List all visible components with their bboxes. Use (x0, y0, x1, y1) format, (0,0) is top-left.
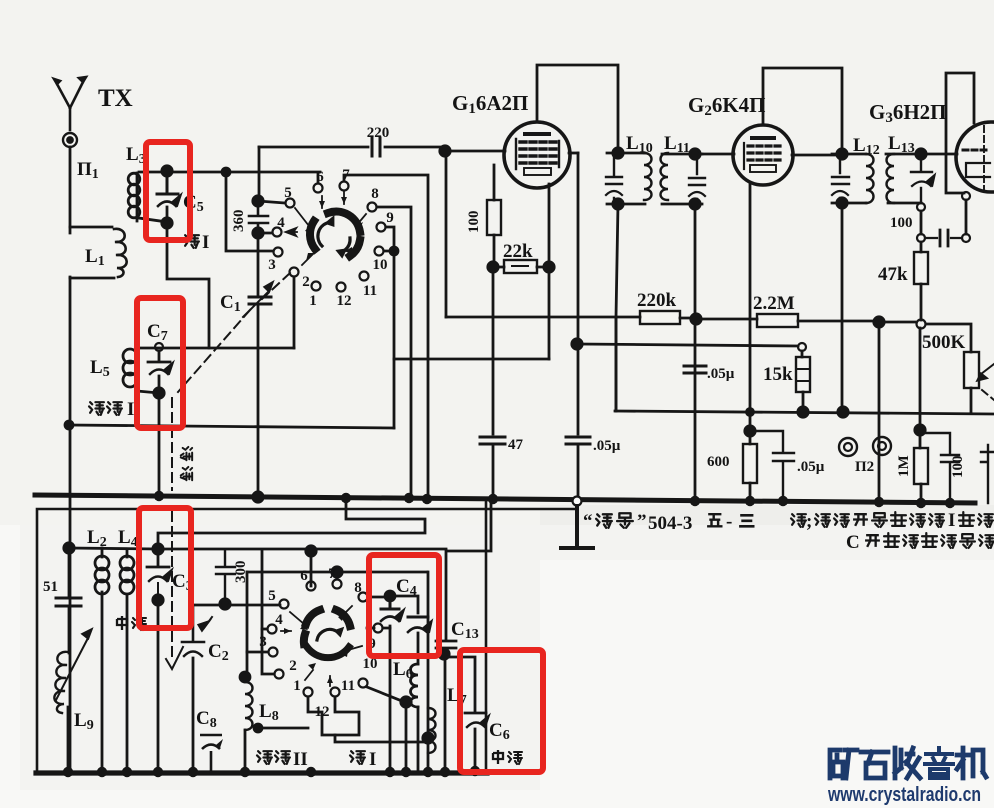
contact G3 cathode (962, 192, 970, 200)
capacitor C4b (408, 616, 428, 619)
node 22k right (544, 262, 554, 272)
wire contact6 up (317, 174, 320, 183)
svg-text:300: 300 (233, 561, 249, 584)
node y151 (440, 146, 450, 156)
IF transformer L10 L11 (607, 153, 702, 204)
node C5 top (162, 166, 172, 176)
svg-text:2: 2 (289, 658, 297, 674)
capacitor C8 trimmer (drawn here with label) (200, 735, 222, 773)
wire L13 top to G3 (921, 153, 957, 156)
node L6 tap (401, 697, 411, 707)
S1 contact 4 (273, 228, 282, 237)
node 15k bottom (798, 407, 808, 417)
text duanbo I (top left) (89, 402, 122, 415)
wire to contact 3 (226, 172, 273, 251)
svg-text:“: “ (583, 511, 593, 532)
S2 contact 1 (304, 688, 313, 697)
wire G1 grid leads (493, 165, 496, 200)
wire contact10 to L6 (367, 687, 402, 701)
svg-text:6: 6 (300, 568, 308, 584)
wire contact8 right down (377, 207, 411, 497)
text zhongbo (left) (117, 616, 146, 630)
wire 220 row (259, 146, 444, 149)
wire lower mid stubs (258, 581, 311, 728)
S1 contact 11 (360, 272, 369, 281)
resistor 1M (920, 430, 921, 501)
svg-text:I: I (948, 510, 955, 531)
node 600 row (747, 409, 754, 416)
svg-text:3: 3 (259, 634, 267, 650)
wire plate row y151 (444, 150, 505, 153)
wire G1 screen down x578 (577, 153, 580, 434)
wire L12 down (841, 203, 844, 412)
wire contact8 to C4 (368, 596, 388, 599)
wire y572 row (247, 571, 427, 574)
wire L13 bottom chain (920, 211, 923, 252)
svg-text:10: 10 (373, 257, 388, 273)
text duan I (bottom) (350, 751, 365, 764)
resistor 2.2M (696, 319, 877, 321)
caption note line 1 (791, 514, 806, 527)
wire x262 leg (262, 551, 274, 674)
wire L11 down x695 (694, 204, 697, 499)
wire x493 down (492, 267, 495, 434)
svg-text:4: 4 (277, 215, 285, 231)
right edge widget (981, 445, 994, 503)
node 2.2M right (874, 317, 884, 327)
capacitor C5 trimmer (157, 175, 178, 194)
wire contact9 (367, 627, 390, 630)
red box around C3 (139, 508, 191, 628)
node L11 top (690, 149, 700, 159)
node contact6 top (306, 546, 316, 556)
wire L7 leg x428 (427, 572, 430, 773)
watermark char yin (925, 748, 953, 778)
main ground rail (35, 495, 975, 503)
watermark char kuang (830, 750, 857, 778)
svg-text:G26K4П: G26K4П (688, 93, 766, 119)
wire G2 cathode down (749, 184, 752, 429)
inductor L7 (428, 708, 436, 753)
node L7 tap (423, 733, 433, 743)
wire top row y172 (139, 172, 320, 222)
rail junction dots (154, 491, 955, 508)
svg-text:II: II (293, 749, 308, 770)
svg-text:100: 100 (890, 215, 913, 231)
text duan I (near C5) (184, 235, 199, 248)
watermark char shi (861, 752, 888, 778)
svg-text:360: 360 (231, 210, 247, 233)
node C5 bottom (162, 218, 172, 228)
S2 numbers (259, 566, 377, 720)
capacitor .05u (AVC) (684, 366, 706, 373)
node C13 bottom (439, 649, 449, 659)
S2 contact 2 (275, 670, 284, 679)
wire row y425 to switch (69, 425, 394, 428)
capacitor 360 (249, 205, 268, 229)
ground symbol (561, 506, 593, 548)
svg-text:.05µ: .05µ (707, 366, 735, 382)
resistor 600 (743, 444, 757, 483)
node 22k left (488, 262, 498, 272)
S1 contact 9 (377, 223, 386, 232)
svg-text:3: 3 (268, 257, 276, 273)
S2 contact 5 (280, 600, 289, 609)
capacitor C3 trimmer (147, 553, 169, 567)
red box around C6 (460, 650, 543, 772)
capacitor C1 (249, 297, 271, 304)
inductor L1 (70, 227, 114, 278)
tube G3 top rail (946, 73, 974, 193)
tube G2 internals (752, 136, 774, 140)
wire AVC row (578, 344, 798, 346)
wire x879 down to rail (878, 322, 881, 501)
wire column x258 (258, 147, 261, 198)
node at y425 (65, 421, 73, 429)
inductor L9 adjustable (54, 652, 68, 713)
red box around C5 (146, 142, 190, 240)
capacitor C2 trimmer (182, 605, 204, 642)
svg-text:100: 100 (466, 211, 482, 234)
node L13 top (916, 149, 926, 159)
svg-text:1: 1 (309, 293, 317, 309)
node C7 bottom (154, 388, 164, 398)
resistor 500K pot (964, 352, 979, 388)
contact C7 top (155, 343, 163, 351)
S1 contact 3 (274, 248, 283, 257)
capacitor 51 (56, 598, 81, 606)
node 220k right (691, 314, 701, 324)
svg-text:”: ” (637, 511, 647, 532)
contact 100 right (962, 234, 970, 242)
capacitor 300 (216, 551, 235, 603)
svg-text:www.crystalradio.cn: www.crystalradio.cn (827, 784, 981, 806)
jack P2 a (839, 438, 857, 456)
svg-text:П2: П2 (855, 459, 874, 475)
node C4 top (385, 591, 395, 601)
wire x920 down (919, 328, 922, 427)
svg-text:.05µ: .05µ (593, 438, 621, 454)
S1 contact 2 (290, 268, 299, 277)
node contact7 top (332, 567, 342, 577)
svg-text:11: 11 (341, 678, 355, 694)
node contact10 (390, 247, 398, 255)
tube G1 6A2P envelope (504, 122, 570, 188)
S1 contact 1 (312, 282, 321, 291)
svg-text:1M: 1M (896, 455, 912, 477)
svg-text:.05µ: .05µ (797, 459, 825, 475)
S1 contact 12 (337, 283, 346, 292)
resistor 47k (914, 252, 928, 284)
svg-text:6: 6 (316, 169, 324, 185)
svg-text:I: I (369, 749, 376, 770)
S2 contact 8 (359, 593, 368, 602)
wire G1 right lead (569, 152, 578, 155)
svg-text:51: 51 (43, 579, 58, 595)
resistor 220k row (446, 317, 694, 318)
contact 15k top (798, 343, 806, 351)
contact L13 bottom (917, 203, 925, 211)
wire contact7 to right rail (344, 175, 428, 497)
wire row y412 (615, 411, 994, 414)
text duanbo II (257, 751, 290, 764)
S2 contact 3 (269, 648, 278, 657)
S1 contact 6 (314, 184, 323, 193)
node L12 bottom (837, 198, 847, 208)
S2 contact 11 (331, 688, 340, 697)
wire C4 right leg (390, 596, 418, 613)
wire row y348 (137, 347, 294, 350)
red box around C7 (137, 298, 183, 428)
capacitor .05u (screen) (566, 437, 590, 444)
staircase wire W1 (158, 498, 425, 546)
svg-text:22k: 22k (503, 241, 533, 262)
wire G2 plate right (792, 154, 842, 157)
wire x966 down (965, 200, 968, 234)
svg-text:7: 7 (342, 167, 350, 183)
S2 contact 9 (374, 624, 383, 633)
S2 contact 4 (268, 625, 277, 634)
node AVC start (572, 339, 582, 349)
wire contact7 stub (336, 572, 339, 579)
svg-text:15k: 15k (763, 364, 793, 385)
S2 contact 7 (333, 580, 342, 589)
capacitor 47 (480, 437, 505, 444)
svg-text:2.2M: 2.2M (753, 293, 795, 314)
node C3 top (153, 544, 163, 554)
band switch S2 rotor (304, 610, 350, 644)
node L10 bottom (613, 199, 623, 209)
S1 arrows (295, 192, 366, 265)
node L12 row (838, 407, 848, 417)
svg-text:5: 5 (268, 588, 276, 604)
arrow C1 rotor (243, 291, 269, 317)
node L8 tap (254, 724, 262, 732)
wire left column down (69, 277, 72, 773)
svg-text:12: 12 (315, 704, 330, 720)
capacitor 100 (G3) (925, 237, 962, 239)
contact 47k bottom (917, 320, 926, 329)
tube G1 internals (525, 132, 549, 136)
wire C4 down to rail (389, 626, 392, 773)
bottom rail dots (63, 766, 480, 777)
svg-text:2: 2 (302, 274, 310, 290)
node top row mid (222, 168, 230, 176)
arrow gang check (166, 647, 183, 669)
wire C3 down (157, 583, 159, 773)
node 300 bottom (220, 599, 230, 609)
S1 numbers (268, 167, 394, 309)
wire contact5 (258, 201, 285, 203)
watermark char ji (957, 748, 986, 778)
node 360 top (253, 196, 263, 206)
wire antenna down (69, 147, 72, 233)
S1 contact 7 (340, 182, 349, 191)
tube G3 internals (983, 126, 985, 192)
wire C13 to C6 (445, 657, 475, 711)
tube G1 top lead and rail (537, 65, 618, 151)
S1 contact 8 (368, 203, 377, 212)
wire contact3 (247, 651, 268, 654)
wire C7 to rail (158, 393, 161, 497)
resistor 15k (802, 351, 803, 410)
wire C2 down (192, 658, 195, 773)
wire contact5 row y604 (193, 604, 280, 607)
S2 contact 10 (359, 679, 368, 688)
text rotated gang label (181, 447, 192, 480)
svg-text:;: ; (806, 511, 812, 532)
capacitor 100 (output) (920, 433, 959, 501)
node C1 rail (253, 492, 263, 502)
transformer L2 L4 (102, 548, 127, 773)
svg-text:1: 1 (293, 678, 301, 694)
wire contacts 1 11 lower (308, 697, 359, 735)
contact 100 left (917, 234, 925, 242)
antenna TX (54, 77, 86, 130)
capacitor C4 trimmer (381, 601, 399, 609)
node 360 bottom (253, 228, 263, 238)
wire L10 down x616 (616, 204, 618, 411)
svg-text:5: 5 (284, 185, 292, 201)
wire contact4 (258, 232, 272, 235)
wire contact6 stub (310, 551, 313, 581)
wire row to 47k and 500K (883, 322, 971, 352)
svg-text:G16A2П: G16A2П (452, 91, 528, 117)
svg-text:C: C (846, 532, 860, 553)
svg-text:47k: 47k (878, 264, 908, 285)
wire contact2 down to y348 (293, 277, 296, 348)
wire y549 top row (69, 548, 446, 549)
node L11 bottom (690, 199, 700, 209)
capacitor C6 trimmer (465, 712, 486, 715)
svg-text:12: 12 (337, 293, 352, 309)
inductor L6 (411, 664, 419, 707)
resistor 100 (G1 grid) (487, 200, 501, 235)
wire contact9/10 down (384, 227, 394, 428)
wire lower link (335, 735, 428, 742)
S1 contact 5 (286, 199, 295, 208)
svg-text:600: 600 (707, 454, 730, 470)
svg-text:11: 11 (363, 283, 377, 299)
band switch S1 rotor (310, 212, 360, 256)
jack P2 b (873, 437, 891, 455)
svg-text:100: 100 (950, 456, 966, 479)
svg-text:47: 47 (508, 437, 524, 453)
wire C5 bottom jog (167, 223, 209, 348)
tube G2 top lead and rail (763, 68, 842, 152)
bottom box border (37, 500, 577, 774)
svg-text:TX: TX (98, 85, 133, 112)
svg-text:G36H2П: G36H2П (869, 100, 947, 126)
capacitor 220 (372, 138, 380, 156)
node C3 bottom (153, 595, 163, 605)
S2 contact 6 (307, 582, 316, 591)
wire to C1 (257, 237, 260, 295)
node L12 top (837, 149, 847, 159)
wire C13 (446, 504, 491, 640)
arrow at contact4 (287, 231, 297, 233)
tube G3 6H2P envelope (956, 122, 994, 192)
svg-text:7: 7 (328, 566, 336, 582)
svg-text:9: 9 (386, 210, 394, 226)
svg-text:I: I (202, 232, 209, 253)
ground symbol contact (573, 497, 582, 506)
node 600 top (745, 426, 755, 436)
red box around C4 (369, 555, 439, 656)
node L10 top (613, 148, 623, 158)
svg-text:220: 220 (367, 125, 390, 141)
svg-text:4: 4 (275, 612, 283, 628)
capacitor .05u (cathode) (750, 431, 794, 500)
svg-text:220k: 220k (637, 290, 677, 311)
inductor L5 (137, 348, 159, 393)
S2 arrows (281, 606, 362, 686)
capacitor C13 (436, 641, 456, 648)
resistor 22k (493, 266, 549, 269)
dashed gang line (172, 273, 290, 656)
connector P1 (63, 133, 77, 147)
node L2 left (64, 543, 74, 553)
IF transformer L12 L13 (832, 154, 921, 203)
inductor L8 (245, 682, 253, 730)
wire L10 corner (615, 317, 618, 411)
text zhongbo (C6) (493, 750, 522, 764)
svg-text:I: I (127, 399, 134, 420)
inductor L3 (136, 173, 139, 221)
tube G2 6K4P envelope (733, 125, 793, 185)
watermark char shou (895, 748, 920, 778)
svg-text:8: 8 (371, 186, 379, 202)
wire L11 top to G2 (695, 153, 734, 156)
node 1M top (915, 425, 925, 435)
wire y359 row (394, 358, 549, 361)
wire C1 down to rail (257, 306, 260, 497)
svg-text:504-3: 504-3 (648, 513, 692, 534)
S1 contact 10 (375, 247, 384, 256)
svg-text:500K: 500K (922, 332, 966, 353)
wire x446 down to 220k row (445, 151, 448, 317)
svg-text:-: - (726, 511, 732, 532)
node L8 top (240, 672, 250, 682)
wire left leg x247 (246, 572, 249, 677)
wire contact4 stub (262, 628, 267, 631)
svg-text:8: 8 (354, 580, 362, 596)
capacitor C7 trimmer (148, 351, 170, 362)
wire tube cathode down (548, 184, 551, 359)
